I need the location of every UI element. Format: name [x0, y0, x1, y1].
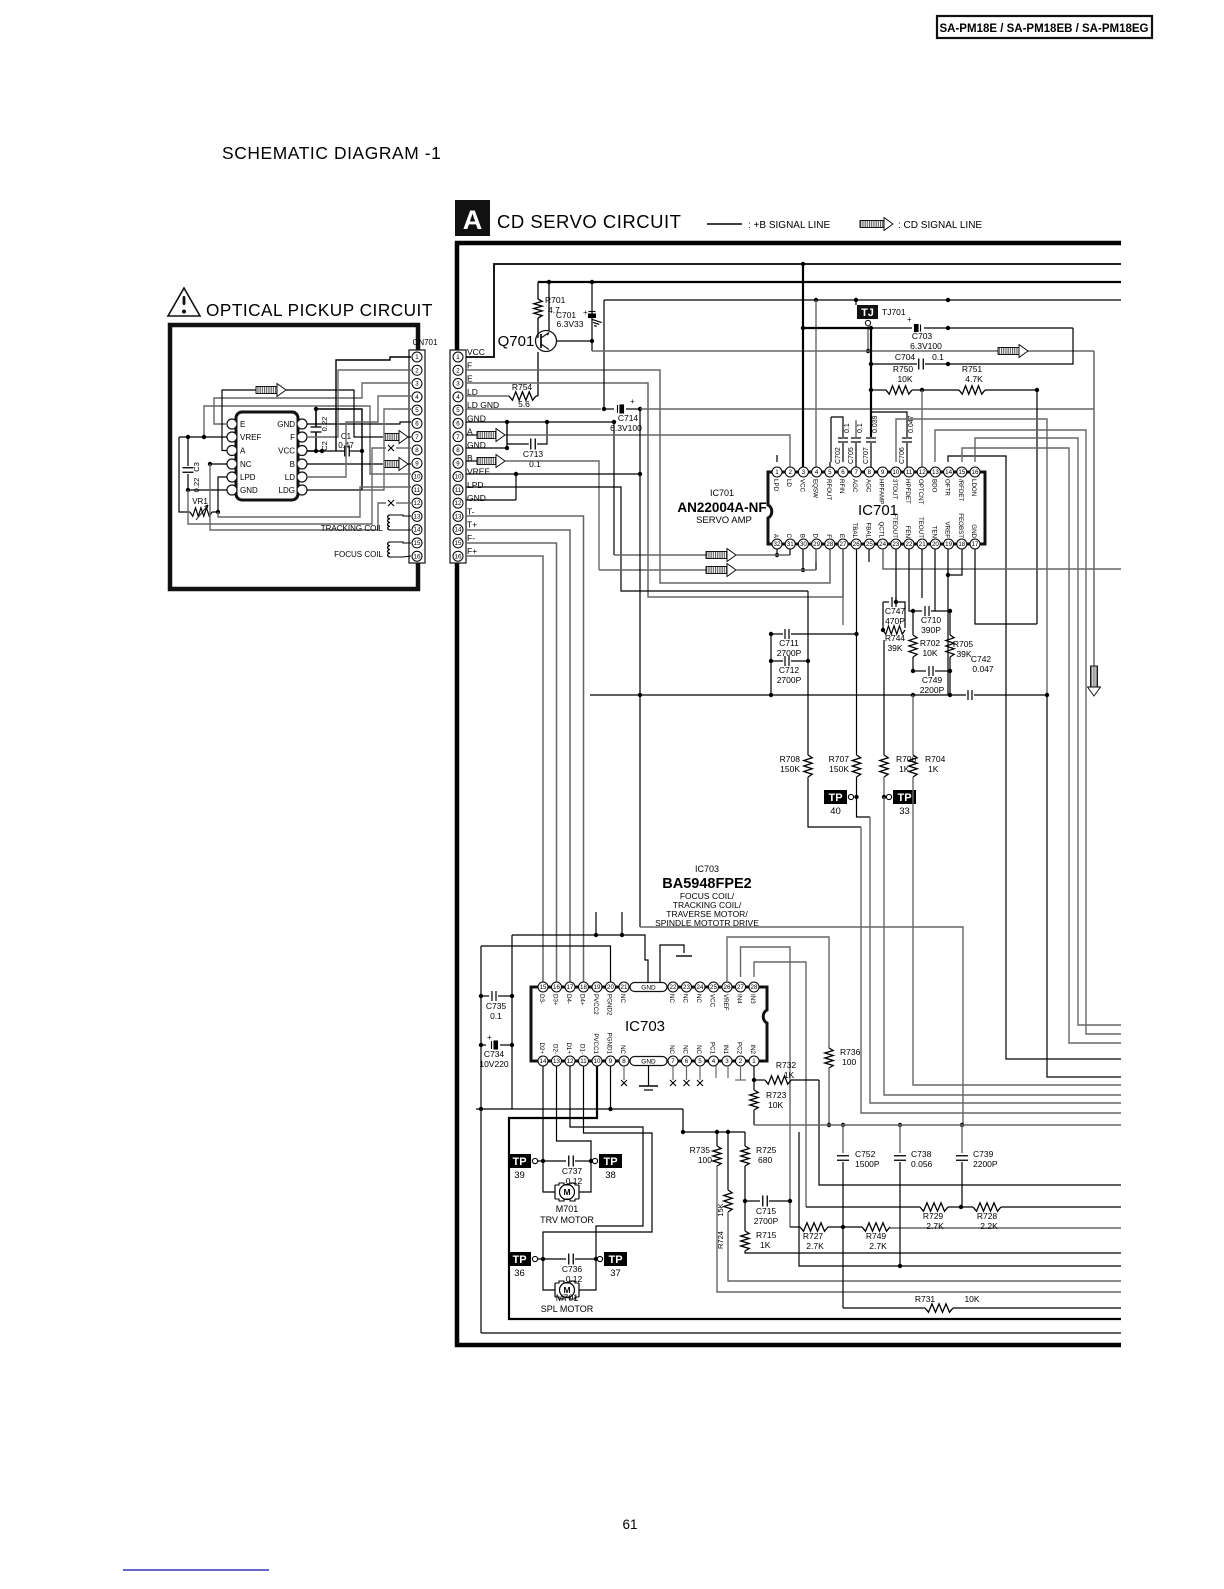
svg-text:10K: 10K — [768, 1100, 783, 1110]
IC701 top pin 12 OPTCNT — [917, 467, 927, 477]
svg-text:OPTICAL PICKUP CIRCUIT: OPTICAL PICKUP CIRCUIT — [206, 300, 433, 320]
svg-text:24: 24 — [697, 984, 704, 991]
svg-text:2700P: 2700P — [777, 675, 802, 685]
resistor R736 — [825, 1048, 833, 1068]
pickup pin F — [297, 432, 307, 442]
IC701 bottom pin 24 QCTL — [878, 539, 888, 549]
pickup pin LPD — [227, 472, 237, 482]
resistor R724 — [724, 1190, 732, 1212]
pickup pin A — [227, 446, 237, 456]
svg-text:9: 9 — [881, 469, 885, 476]
svg-text:15: 15 — [455, 540, 462, 547]
wire pin30 B — [802, 549, 804, 570]
IC703 bottom pin 6 NC — [682, 1056, 692, 1066]
svg-text:C736: C736 — [562, 1264, 583, 1274]
IC703 bottom pin 5 NC — [695, 1056, 705, 1066]
svg-text:LPD: LPD — [772, 479, 779, 492]
wire VCC25 — [713, 947, 715, 977]
test point TP38 — [592, 1154, 622, 1181]
svg-text:11: 11 — [580, 1058, 587, 1065]
wire pin32 A — [776, 549, 778, 555]
wire y1109 — [476, 1108, 683, 1110]
wire F- — [466, 543, 557, 982]
svg-text:5: 5 — [415, 407, 419, 414]
svg-text:25: 25 — [866, 541, 873, 548]
footer line — [123, 1569, 269, 1571]
IC701 top pin 1 LPD — [772, 467, 782, 477]
wire R701 to base — [537, 318, 539, 338]
svg-text:1: 1 — [752, 1058, 756, 1065]
IC701 top pin 7 AGC — [851, 467, 861, 477]
wire GND12 — [466, 499, 516, 501]
svg-text:+: + — [487, 1033, 492, 1042]
cd arrow right — [998, 345, 1028, 358]
wire LPD net — [217, 517, 219, 519]
svg-text:3: 3 — [802, 469, 806, 476]
connector CD servo side — [450, 350, 466, 563]
svg-text:1K: 1K — [899, 764, 910, 774]
svg-text:NC: NC — [668, 994, 675, 1003]
svg-text:3: 3 — [725, 1058, 729, 1065]
wire staircase pin14 — [948, 456, 1121, 1059]
svg-text:C707: C707 — [863, 447, 870, 464]
wire T- — [466, 516, 584, 982]
IC703 bottom pin 9 PGND1 — [606, 1056, 616, 1066]
svg-text:NC: NC — [695, 994, 702, 1003]
pickup pin VCC — [297, 446, 307, 456]
wire VCC net — [307, 450, 322, 452]
IC703 top pin 21 NC — [619, 982, 629, 992]
wire VCC thick — [802, 264, 804, 467]
wire B to CN701-9 — [307, 463, 383, 465]
capacitor C1 — [345, 446, 350, 457]
IC701 bottom pin 26 TBAL — [851, 539, 861, 549]
IC701 top pin 4 EQSW — [812, 467, 822, 477]
wire VREF run — [204, 406, 411, 474]
svg-text:LPD: LPD — [467, 480, 484, 490]
capacitor C712 — [771, 634, 783, 661]
svg-text:C703: C703 — [912, 331, 933, 341]
svg-text:10K: 10K — [964, 1294, 979, 1304]
svg-text:A: A — [240, 447, 246, 456]
svg-text:15K: 15K — [716, 1203, 725, 1216]
wire pin27 — [842, 549, 844, 625]
resistor R725 — [744, 1132, 746, 1146]
wire LD GND — [466, 408, 601, 410]
IC703 bottom pin 3 IN1 — [722, 1056, 732, 1066]
wire LPD run — [221, 489, 223, 491]
IC701 top pin 2 LD — [785, 467, 795, 477]
wire to CN701-1 — [336, 357, 411, 451]
svg-text:C713: C713 — [523, 449, 544, 459]
IC703 top pin 22 NC — [668, 982, 678, 992]
svg-text:M: M — [563, 1187, 570, 1197]
svg-text:HPFAMP: HPFAMP — [878, 479, 885, 504]
svg-text:39K: 39K — [956, 649, 971, 659]
IC701 top pin 3 VCC — [798, 467, 808, 477]
wire D1- — [543, 1066, 652, 1259]
IC703 top pin 17 D4- — [565, 982, 575, 992]
svg-text:11: 11 — [906, 469, 913, 476]
svg-text:B: B — [467, 453, 473, 463]
wire y570 v — [947, 570, 949, 695]
svg-text:: CD SIGNAL LINE: : CD SIGNAL LINE — [898, 220, 982, 231]
resistor R735 — [716, 1132, 718, 1146]
svg-text:IC701: IC701 — [710, 488, 734, 498]
svg-text:12: 12 — [919, 469, 926, 476]
capacitor C735 — [481, 995, 489, 997]
wire pin22 — [908, 549, 910, 605]
svg-text:0.047: 0.047 — [908, 415, 915, 433]
wire y299 — [603, 300, 605, 409]
wire staircase pin16 — [975, 438, 1121, 1025]
svg-text:+: + — [583, 308, 588, 317]
svg-text:150K: 150K — [780, 764, 800, 774]
svg-text:0.039: 0.039 — [872, 415, 879, 433]
svg-text:C734: C734 — [484, 1049, 505, 1059]
legend cd arrow — [860, 218, 893, 231]
svg-text:D2-: D2- — [552, 1044, 559, 1054]
resistor R705 — [949, 611, 951, 635]
svg-text:NC: NC — [619, 994, 626, 1003]
pickup pin LDG — [297, 485, 307, 495]
svg-text:4: 4 — [815, 469, 819, 476]
capacitor C3 0.22 — [183, 468, 194, 473]
svg-text:C715: C715 — [756, 1206, 777, 1216]
capacitor C738 — [898, 1123, 902, 1127]
capacitor C710 — [913, 610, 922, 612]
svg-text:39: 39 — [514, 1170, 525, 1181]
svg-text:IC703: IC703 — [695, 864, 719, 874]
wire c712 gnd — [770, 661, 772, 695]
wire R751 right — [985, 390, 1037, 624]
warning triangle — [168, 288, 200, 316]
svg-text:M701: M701 — [556, 1204, 579, 1214]
wire tj — [855, 300, 857, 305]
svg-text:31: 31 — [787, 541, 794, 548]
svg-text:2200P: 2200P — [920, 685, 945, 695]
svg-text:R708: R708 — [780, 754, 801, 764]
svg-text:+: + — [907, 315, 912, 324]
IC701 bottom pin 28 F — [825, 539, 835, 549]
resistor R744 — [883, 626, 905, 634]
svg-text:OPTCNT: OPTCNT — [917, 479, 924, 505]
svg-text:5: 5 — [456, 407, 460, 414]
IC703 top pin 27 IN4 — [736, 982, 746, 992]
resistor R723 — [753, 1080, 755, 1090]
svg-text:D: D — [812, 534, 819, 539]
wire collector — [557, 340, 593, 342]
wire GND left — [188, 489, 227, 491]
IC701 bottom pin 29 D — [812, 539, 822, 549]
svg-text:R749: R749 — [866, 1231, 887, 1241]
IC703 bottom pin 11 D1- — [579, 1056, 589, 1066]
IC701 bottom pin 32 A — [772, 539, 782, 549]
svg-text:2.2K: 2.2K — [980, 1221, 998, 1231]
svg-text:25: 25 — [710, 984, 717, 991]
svg-text:3: 3 — [415, 381, 419, 388]
svg-text:GND: GND — [467, 493, 486, 503]
svg-text:BA5948FPE2: BA5948FPE2 — [662, 876, 751, 892]
svg-text:C705: C705 — [848, 447, 855, 464]
svg-text:F+: F+ — [467, 546, 477, 556]
svg-text:C704: C704 — [895, 352, 916, 362]
wire F+ — [466, 556, 543, 982]
svg-text:SERVO AMP: SERVO AMP — [696, 515, 752, 526]
svg-text:D4+: D4+ — [579, 994, 586, 1006]
svg-text:TP: TP — [608, 1254, 622, 1266]
wire y695 — [590, 694, 966, 696]
wire D2- — [557, 1066, 592, 1161]
svg-text:2700P: 2700P — [754, 1216, 779, 1226]
svg-text:IC703: IC703 — [625, 1018, 665, 1035]
svg-text:27: 27 — [840, 541, 847, 548]
svg-text:12: 12 — [414, 500, 421, 507]
wire D1+ — [570, 1066, 643, 1259]
wire v640 — [639, 695, 641, 927]
resistor R729 — [806, 1206, 920, 1208]
svg-text:NC: NC — [682, 994, 689, 1003]
svg-text:F: F — [290, 433, 295, 442]
svg-text:R724: R724 — [716, 1231, 725, 1249]
svg-text:15: 15 — [958, 469, 965, 476]
svg-text:NC: NC — [668, 1045, 675, 1054]
svg-text:C706: C706 — [899, 447, 906, 464]
svg-text:R750: R750 — [893, 364, 914, 374]
svg-text:LD: LD — [285, 473, 295, 482]
IC701 top pin 16 LDON — [970, 467, 980, 477]
svg-text:0.056: 0.056 — [911, 1159, 933, 1169]
resistor R704 — [912, 695, 914, 700]
svg-text:390P: 390P — [921, 625, 941, 635]
test jack TJ701 — [857, 305, 878, 319]
svg-text:TP: TP — [603, 1156, 617, 1168]
wire pin9 up — [882, 445, 884, 462]
svg-text:0.1: 0.1 — [490, 1011, 502, 1021]
svg-text:PVCC1: PVCC1 — [592, 1033, 599, 1054]
svg-text:4: 4 — [456, 394, 460, 401]
svg-text:7: 7 — [671, 1058, 675, 1065]
svg-text:13: 13 — [455, 513, 462, 520]
wire to CN701-12 with x — [210, 464, 386, 530]
svg-text:16: 16 — [455, 553, 462, 560]
wire over IC703 y935 — [512, 935, 648, 982]
ground C701 — [591, 319, 602, 327]
cd arrow optical B — [384, 458, 408, 471]
resistor R715 — [741, 1231, 749, 1251]
svg-text:R707: R707 — [829, 754, 850, 764]
IC701 bottom pin 23 FTEOUT — [891, 539, 901, 549]
wire r705 down — [949, 671, 951, 695]
wire E to CN701-3 — [214, 383, 411, 424]
svg-text:7: 7 — [415, 434, 419, 441]
svg-text:NC: NC — [240, 460, 252, 469]
svg-text:0.1: 0.1 — [932, 352, 944, 362]
svg-text:6: 6 — [415, 421, 419, 428]
svg-text:3TOUT: 3TOUT — [891, 479, 898, 499]
svg-text:E: E — [467, 374, 473, 384]
svg-text:D2+: D2+ — [538, 1042, 545, 1054]
svg-text:10K: 10K — [897, 374, 912, 384]
svg-text:R731: R731 — [915, 1294, 936, 1304]
IC701 bottom pin 21 TEOUT — [917, 539, 927, 549]
IC703 bottom pin 13 D2- — [552, 1056, 562, 1066]
svg-text:8: 8 — [622, 1058, 626, 1065]
svg-text:14: 14 — [455, 527, 462, 534]
wire PGND1 — [610, 1066, 612, 1109]
wire pin19 — [947, 549, 949, 575]
svg-text:D1-: D1- — [579, 1044, 586, 1054]
svg-text:TRV MOTOR: TRV MOTOR — [540, 1215, 594, 1225]
svg-text:32: 32 — [774, 541, 781, 548]
svg-text:LPD: LPD — [240, 473, 256, 482]
svg-text:C712: C712 — [779, 665, 800, 675]
svg-text:5: 5 — [698, 1058, 702, 1065]
wire pin31 — [789, 549, 791, 555]
pickup pin E — [227, 419, 237, 429]
resistor R708 — [807, 591, 809, 755]
svg-text:61: 61 — [622, 1517, 637, 1532]
capacitor C713 — [507, 422, 529, 444]
wire LDG — [307, 451, 362, 490]
svg-text:8: 8 — [868, 469, 872, 476]
svg-text:TRACKING COIL: TRACKING COIL — [321, 524, 384, 533]
svg-text:VCC: VCC — [278, 447, 295, 456]
IC701 top pin 9 HPFAMP — [878, 467, 888, 477]
svg-text:12: 12 — [455, 500, 462, 507]
pickup pin VREF — [227, 432, 237, 442]
svg-text:15: 15 — [540, 984, 547, 991]
svg-text:R735: R735 — [690, 1145, 711, 1155]
IC701 bottom pin 19 VREF — [944, 539, 954, 549]
svg-text:R744: R744 — [885, 633, 906, 643]
capacitor C715 — [743, 1199, 747, 1203]
resistor R728 — [973, 1203, 1001, 1211]
svg-text:12: 12 — [567, 1058, 574, 1065]
IC701 top pin 15 /RFDET — [957, 467, 967, 477]
svg-text:8: 8 — [456, 447, 460, 454]
wire VREF net left — [188, 436, 227, 438]
svg-text:29: 29 — [813, 541, 820, 548]
wire c710 left — [909, 605, 913, 611]
capacitor C702 — [831, 417, 843, 437]
svg-text:1: 1 — [775, 469, 779, 476]
test point TP37 — [597, 1252, 627, 1279]
cd arrow2 — [599, 569, 706, 571]
pickup pin GND — [297, 419, 307, 429]
resistor R749 — [862, 1223, 890, 1231]
wire pin20 — [934, 549, 936, 605]
wire C703 right — [924, 327, 1073, 329]
wire pin1 IN2 down — [753, 1066, 755, 1080]
svg-text:C747: C747 — [885, 606, 906, 616]
wire staircase pin15 — [962, 448, 1121, 1043]
svg-text:VREF: VREF — [944, 521, 951, 538]
wire IN4 — [741, 947, 791, 1227]
cd arrow optical A — [256, 384, 286, 397]
svg-text:+: + — [630, 397, 635, 406]
wire VREF drop — [639, 409, 641, 695]
svg-text:FEOBST: FEOBST — [957, 513, 964, 538]
wire FBAL stub — [868, 549, 870, 562]
wire y1125 — [754, 1124, 1121, 1126]
svg-text:TEN: TEN — [930, 526, 937, 538]
legend +B signal line — [707, 223, 742, 225]
svg-text:C742: C742 — [971, 654, 992, 664]
wire B+ top — [538, 281, 1121, 283]
svg-text:GND: GND — [641, 985, 656, 992]
svg-text:C: C — [785, 534, 792, 539]
IC701 top pin 6 RFIN — [838, 467, 848, 477]
svg-text:D4-: D4- — [565, 994, 572, 1004]
wire E — [466, 383, 843, 597]
capacitor C713 — [531, 439, 536, 450]
IC703 top pin 23 NC — [682, 982, 692, 992]
svg-text:D3+: D3+ — [552, 994, 559, 1006]
svg-text:38: 38 — [605, 1170, 616, 1181]
svg-text:CN701: CN701 — [413, 338, 438, 347]
svg-text:6: 6 — [841, 469, 845, 476]
svg-text:R704: R704 — [925, 754, 946, 764]
IC703 GND capsule top — [630, 983, 667, 992]
x marks below NC pins — [623, 1066, 625, 1080]
svg-text:R729: R729 — [923, 1211, 944, 1221]
IC701 top pin 14 OFTR — [944, 467, 954, 477]
cd arrow optical A2 — [384, 431, 408, 444]
svg-text:17: 17 — [567, 984, 574, 991]
svg-text:33: 33 — [899, 806, 910, 817]
pickup pin LD — [297, 472, 307, 482]
wire pin5 up — [829, 462, 831, 467]
svg-text:FTEOUT: FTEOUT — [891, 513, 898, 538]
capacitor C707 — [866, 438, 876, 442]
wire left loop — [480, 946, 482, 1333]
svg-text:R702: R702 — [920, 638, 941, 648]
svg-text:10: 10 — [892, 469, 899, 476]
IC703 top pin 25 VCC — [709, 982, 719, 992]
wire gnd to CN701-8 with x — [188, 448, 386, 524]
wire y569 long — [883, 549, 1121, 569]
svg-text:AN22004A-NF: AN22004A-NF — [677, 500, 766, 515]
svg-text:C752: C752 — [855, 1149, 876, 1159]
svg-text:2.7K: 2.7K — [806, 1241, 824, 1251]
svg-text:PC1: PC1 — [709, 1042, 716, 1055]
wire pin1 pin2 up — [776, 455, 778, 462]
svg-text:NC: NC — [695, 1045, 702, 1054]
svg-text:GND: GND — [240, 486, 258, 495]
IC703 bottom pin 12 D1+ — [565, 1056, 575, 1066]
IC701 top pin 5 RFOUT — [825, 467, 835, 477]
wire LPD row — [466, 487, 808, 591]
svg-text:T-: T- — [467, 506, 475, 516]
svg-text:10: 10 — [455, 474, 462, 481]
svg-text:GND: GND — [641, 1059, 656, 1066]
wire r724 top — [727, 1132, 729, 1190]
svg-text:23: 23 — [683, 984, 690, 991]
svg-text:TBAL: TBAL — [851, 523, 858, 539]
stub PC2 — [740, 1066, 742, 1080]
svg-text:2: 2 — [415, 367, 419, 374]
IC701 top pin 13 BDO — [930, 467, 940, 477]
optical pickup box — [170, 325, 418, 589]
wire GND row — [466, 421, 614, 423]
svg-text:R715: R715 — [756, 1230, 777, 1240]
capacitor C701 — [589, 312, 596, 318]
IC701 bottom pin 17 GND — [970, 539, 980, 549]
svg-text:C737: C737 — [562, 1166, 583, 1176]
cd arrow B — [466, 460, 477, 462]
svg-text:1500P: 1500P — [855, 1159, 880, 1169]
